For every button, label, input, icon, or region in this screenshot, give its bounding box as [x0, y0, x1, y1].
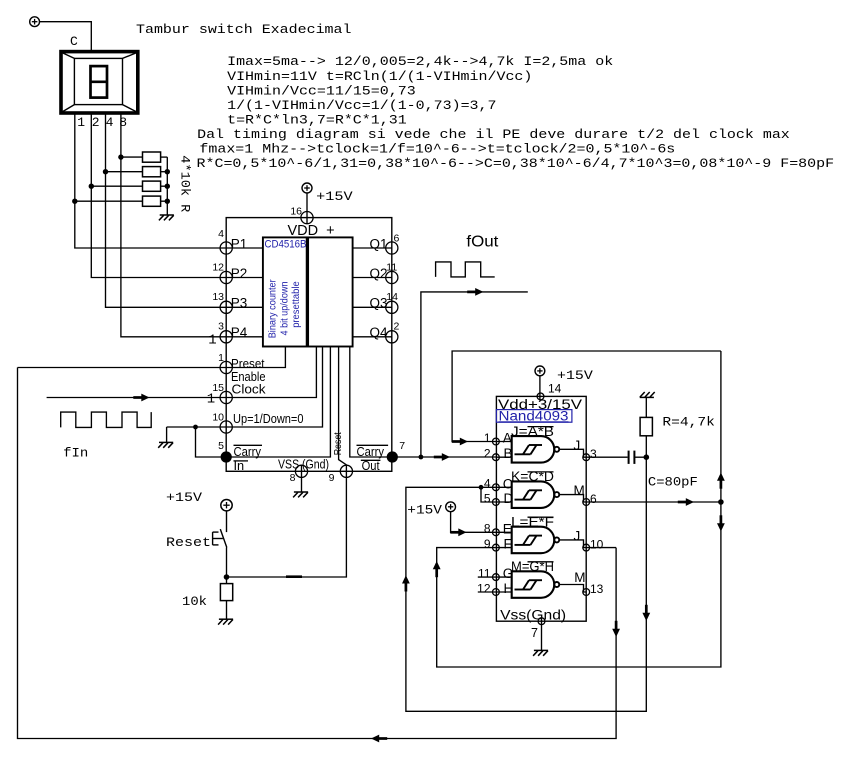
wire +15V to E input — [451, 512, 496, 533]
svg-text:fOut: fOut — [466, 233, 499, 250]
wire switch pin 1 to P1 — [75, 113, 226, 248]
nand gate U2B body — [512, 481, 555, 508]
power supply symbol top-left — [30, 17, 40, 27]
internal wire preset enable — [226, 347, 285, 368]
svg-text:P4: P4 — [231, 325, 248, 340]
arrow down x721 — [717, 523, 725, 531]
ground below 10k — [219, 618, 233, 620]
output pin circle gate U2C — [583, 544, 590, 551]
arrow into A — [460, 438, 468, 446]
svg-text:M: M — [574, 483, 585, 498]
output wire gate U2C — [559, 540, 586, 548]
resistor pack R, resistor 1 — [121, 156, 143, 158]
svg-text:fIn: fIn — [63, 446, 88, 461]
svg-text:1: 1 — [208, 333, 216, 349]
svg-text:D: D — [504, 491, 514, 506]
junction fOut branch — [419, 455, 424, 460]
power +15V at pin 14 — [535, 366, 545, 376]
svg-text:H: H — [504, 581, 514, 596]
svg-text:Reset: Reset — [332, 432, 344, 455]
svg-text:9: 9 — [484, 537, 491, 551]
wire P input stub — [226, 306, 263, 308]
junction carry in pin 5 — [221, 451, 232, 462]
wire P input stub — [226, 247, 263, 249]
nand gate U2D output bubble — [554, 582, 559, 587]
junction pin8 wire / resistor — [118, 154, 123, 159]
counter U1 divider — [306, 237, 309, 346]
svg-text:VSS (Gnd): VSS (Gnd) — [278, 456, 329, 471]
svg-text:4: 4 — [484, 477, 491, 491]
svg-text:Clock: Clock — [232, 382, 267, 397]
svg-text:13: 13 — [590, 582, 604, 596]
nand gate U2C body — [512, 527, 555, 554]
pin P1 — [220, 242, 232, 254]
svg-text:1: 1 — [218, 352, 224, 364]
power +15V at pin 16 — [302, 183, 312, 193]
wire fOut branch — [421, 292, 528, 457]
internal wire up/down — [226, 347, 322, 428]
input stubs gate U2C — [496, 531, 512, 533]
internal wire reset to pin 9 — [339, 347, 347, 472]
svg-text:3: 3 — [590, 447, 597, 461]
svg-text:Q2: Q2 — [369, 266, 387, 281]
svg-text:Q1: Q1 — [369, 236, 387, 251]
wire M output right vertical — [720, 351, 722, 502]
svg-text:10k: 10k — [182, 594, 207, 609]
junction pin1 wire / resistor — [72, 199, 77, 204]
pin 8 VSS — [295, 465, 307, 477]
pin 7 Vss — [538, 618, 545, 625]
svg-text:Binary counter: Binary counter — [266, 279, 278, 338]
counter U1 CD4516B outer box — [226, 218, 392, 472]
G H input stubs — [478, 576, 496, 578]
arrow feedback left — [371, 735, 379, 743]
wire ground to Up/Down pin — [167, 426, 227, 428]
wire overlap mark on reset wire — [286, 575, 302, 578]
svg-text:10: 10 — [590, 538, 604, 552]
wire Preset Enable feedback — [18, 367, 227, 369]
svg-text:Up=1/Down=0: Up=1/Down=0 — [233, 411, 304, 426]
wire Q output stub — [353, 277, 392, 279]
resistor pack R, resistor 2 — [106, 171, 143, 173]
counter U1 inner box — [263, 237, 353, 346]
label Nand4093 blue box — [496, 410, 572, 423]
wire switch to junction — [226, 548, 228, 584]
thumbwheel switch C body — [61, 52, 138, 113]
pin 16 VDD — [301, 212, 313, 224]
svg-text:P1: P1 — [231, 236, 248, 251]
wire junction to D input — [481, 487, 496, 502]
wire R to cap junction — [645, 436, 647, 457]
arrow up x721 — [717, 473, 725, 481]
arrow into B — [442, 453, 450, 461]
wire pin 10 J out to feedback — [586, 547, 616, 549]
wire x721 down to bottom loop — [437, 502, 721, 667]
pin circles gate U2C — [493, 529, 500, 536]
output pin circle gate U2D — [583, 589, 590, 596]
pin circles gate U2B — [493, 484, 500, 491]
output pin circle gate U2A — [583, 454, 590, 461]
svg-text:P2: P2 — [231, 266, 248, 281]
pin P4 — [220, 331, 232, 343]
pin circles gate U2D — [493, 574, 500, 581]
nand gate U2A output bubble — [554, 447, 559, 452]
capacitor C=80pF — [628, 451, 630, 464]
arrow into E — [458, 528, 466, 536]
svg-text:14: 14 — [548, 382, 562, 396]
junction resistor common 1 — [165, 169, 170, 174]
svg-text:presettable: presettable — [290, 281, 302, 328]
junction C D input — [479, 485, 484, 490]
svg-text:5: 5 — [218, 440, 224, 452]
output wire gate U2D — [559, 585, 586, 593]
nand gate U2D body — [512, 571, 555, 598]
pin Preset Enable — [220, 361, 232, 373]
svg-text:4 bit up/down: 4 bit up/down — [278, 281, 290, 335]
svg-text:4*10k R: 4*10k R — [178, 155, 193, 212]
junction resistor common 3 — [165, 199, 170, 204]
wire Q output stub — [353, 247, 392, 249]
svg-text:M: M — [574, 570, 585, 585]
wire Carry Out to gate B input — [392, 456, 496, 458]
svg-text:t=R*C*ln3,7=R*C*1,31: t=R*C*ln3,7=R*C*1,31 — [227, 112, 407, 127]
pin Up/Down — [220, 421, 232, 433]
svg-text:+15V: +15V — [407, 503, 442, 518]
power +15V at E input — [446, 502, 456, 512]
pin circles gate U2A — [493, 438, 500, 445]
svg-text:+15V: +15V — [557, 368, 593, 383]
svg-text:VIHmin=11V t=RCln(1/(1-VIHmin/: VIHmin=11V t=RCln(1/(1-VIHmin/Vcc) — [227, 69, 532, 84]
svg-text:1: 1 — [484, 431, 491, 445]
input stubs gate U2D — [496, 576, 512, 578]
pin Q1 — [386, 242, 398, 254]
output wire gate U2B — [559, 495, 586, 502]
svg-text:J: J — [574, 438, 581, 453]
svg-text:+15V: +15V — [166, 490, 202, 505]
nand gate U2A body — [512, 436, 555, 463]
reset push-button switch S1 — [226, 511, 228, 532]
pin 14 — [537, 393, 544, 400]
resistor pack common wire — [166, 157, 168, 215]
svg-text:9: 9 — [329, 472, 335, 484]
svg-text:7: 7 — [531, 626, 538, 640]
wire junction down to Carry In — [196, 427, 227, 457]
nand chip U2 outer box — [496, 396, 586, 621]
svg-text:C=80pF: C=80pF — [648, 475, 698, 490]
junction capacitor — [644, 454, 650, 460]
nand gate U2B output bubble — [554, 492, 559, 497]
pin Q4 — [386, 331, 398, 343]
svg-text:6: 6 — [394, 233, 400, 245]
ground at Up/Down — [166, 427, 168, 442]
ground at pin 7 — [541, 618, 543, 650]
wire Q output stub — [353, 336, 392, 338]
pin Q3 — [386, 301, 398, 313]
svg-text:2: 2 — [484, 447, 491, 461]
wire P input stub — [226, 277, 263, 279]
ground below resistor pack — [160, 214, 174, 216]
internal wire clock — [226, 347, 316, 398]
svg-text:Q4: Q4 — [369, 325, 388, 340]
internal wire carry in — [226, 347, 330, 458]
fOut waveform — [436, 262, 495, 277]
nand gate U2C schmitt symbol — [515, 544, 531, 546]
svg-text:Dal timing diagram si vede che: Dal timing diagram si vede che il PE dev… — [197, 127, 790, 142]
input stubs gate U2B — [496, 486, 512, 488]
junction M vertical — [718, 499, 724, 505]
svg-text:R=4,7k: R=4,7k — [662, 414, 715, 429]
wire fIn to Clock — [47, 397, 227, 399]
ground at pin 8 — [301, 466, 303, 492]
svg-text:11: 11 — [386, 261, 397, 273]
svg-text:In: In — [234, 458, 245, 473]
svg-text:7: 7 — [399, 440, 405, 452]
switch C digit 8 — [91, 66, 108, 98]
wire C D input loop from bottom — [406, 457, 646, 711]
arrow down x646 — [642, 613, 650, 621]
arrow on M wire — [686, 498, 694, 506]
arrow feedback down x616 — [612, 629, 620, 637]
junction resistor common 2 — [165, 184, 170, 189]
wire Q output stub — [353, 306, 392, 308]
nand gate U2A schmitt symbol — [515, 453, 531, 455]
wire P input stub — [226, 336, 263, 338]
nand gate U2C output bubble — [554, 537, 559, 542]
svg-text:16: 16 — [290, 206, 302, 218]
svg-text:Carry: Carry — [234, 444, 262, 459]
resistor pack R, resistor 3 — [91, 185, 142, 187]
wire pin 3 to capacitor — [586, 456, 627, 458]
wire 10k to ground — [226, 601, 228, 619]
svg-text:2: 2 — [394, 321, 400, 333]
svg-text:1/(1-VIHmin/Vcc=1/(1-0,73)=3,7: 1/(1-VIHmin/Vcc=1/(1-0,73)=3,7 — [227, 98, 496, 113]
svg-text:8: 8 — [484, 522, 491, 536]
output pin circle gate U2B — [583, 499, 590, 506]
svg-text:5: 5 — [484, 491, 491, 505]
wire pin 6 M to vertical — [586, 501, 721, 503]
svg-text:VDD +: VDD + — [288, 223, 335, 239]
svg-text:4: 4 — [106, 115, 114, 130]
wire reset node to pin 9 — [227, 471, 347, 577]
internal wire carry out — [350, 347, 392, 458]
arrow fOut — [475, 288, 483, 296]
svg-text:F: F — [504, 537, 512, 552]
svg-text:VIHmin/Vcc=11/15=0,73: VIHmin/Vcc=11/15=0,73 — [227, 83, 416, 98]
svg-text:10: 10 — [212, 411, 224, 423]
svg-text:8: 8 — [290, 472, 296, 484]
junction pin4 wire / resistor — [103, 169, 108, 174]
svg-text:Tambur switch Exadecimal: Tambur switch Exadecimal — [136, 22, 352, 37]
svg-text:Imax=5ma--> 12/0,005=2,4k-->4,: Imax=5ma--> 12/0,005=2,4k-->4,7k I=2,5ma… — [227, 54, 613, 69]
svg-text:13: 13 — [212, 291, 224, 303]
svg-text:CD4516B: CD4516B — [265, 239, 307, 251]
nand gate U2B schmitt symbol — [515, 499, 531, 501]
svg-text:6: 6 — [590, 492, 597, 506]
pin Q2 — [386, 271, 398, 283]
resistor pack R, resistor 4 — [75, 200, 143, 202]
svg-text:Q3: Q3 — [369, 296, 387, 311]
pin Clock — [220, 391, 232, 403]
wire switch pin 4 to P3 — [106, 113, 227, 307]
fIn clock waveform — [61, 412, 152, 427]
input stubs gate U2A — [496, 441, 512, 443]
svg-text:J: J — [574, 529, 581, 544]
pin P3 — [220, 301, 232, 313]
svg-text:Vss(Gnd): Vss(Gnd) — [500, 608, 566, 623]
nand gate U2D schmitt symbol — [515, 589, 531, 591]
junction carry out pin 7 — [387, 451, 398, 462]
junction pin2 wire / resistor — [89, 184, 94, 189]
wire A input feedback from top loop — [452, 351, 721, 442]
wire switch pin 2 to P2 — [91, 113, 226, 278]
svg-text:11: 11 — [478, 566, 491, 580]
output wire gate U2A — [559, 449, 586, 457]
resistor R=4,7k — [640, 417, 652, 435]
pin 9 Reset — [340, 465, 352, 477]
svg-text:C: C — [70, 34, 78, 49]
svg-text:fmax=1 Mhz-->tclock=1/f=10^-6-: fmax=1 Mhz-->tclock=1/f=10^-6-->t=tclock… — [199, 142, 675, 157]
svg-text:12: 12 — [477, 581, 491, 595]
svg-text:14: 14 — [386, 291, 398, 303]
svg-text:Reset: Reset — [166, 535, 211, 550]
power +15V at reset switch — [221, 500, 232, 511]
junction Up/Down to Carry In — [193, 425, 198, 430]
svg-text:+15V: +15V — [316, 189, 353, 204]
junction reset node — [224, 574, 230, 580]
svg-text:R*C=0,5*10^-6/1,31=0,38*10^-6-: R*C=0,5*10^-6/1,31=0,38*10^-6-->C=0,38*1… — [197, 156, 835, 171]
svg-text:P3: P3 — [231, 296, 248, 311]
wire power to switch C — [40, 22, 92, 52]
resistor 10k — [220, 584, 232, 601]
svg-text:Carry: Carry — [357, 444, 385, 459]
svg-text:B: B — [504, 446, 513, 461]
svg-text:12: 12 — [212, 261, 224, 273]
arrow up x406 — [402, 575, 410, 583]
ground above resistor R — [640, 396, 654, 398]
arrow fIn — [141, 394, 149, 402]
svg-text:2: 2 — [92, 115, 100, 130]
svg-text:1: 1 — [207, 392, 215, 408]
svg-text:4: 4 — [218, 228, 224, 240]
svg-text:3: 3 — [218, 321, 224, 333]
arrow up x437 — [433, 561, 441, 569]
svg-text:Nand4093: Nand4093 — [499, 408, 569, 423]
svg-text:1: 1 — [77, 115, 85, 130]
pin P2 — [220, 271, 232, 283]
wire switch pin 8 to P4 — [121, 113, 226, 337]
